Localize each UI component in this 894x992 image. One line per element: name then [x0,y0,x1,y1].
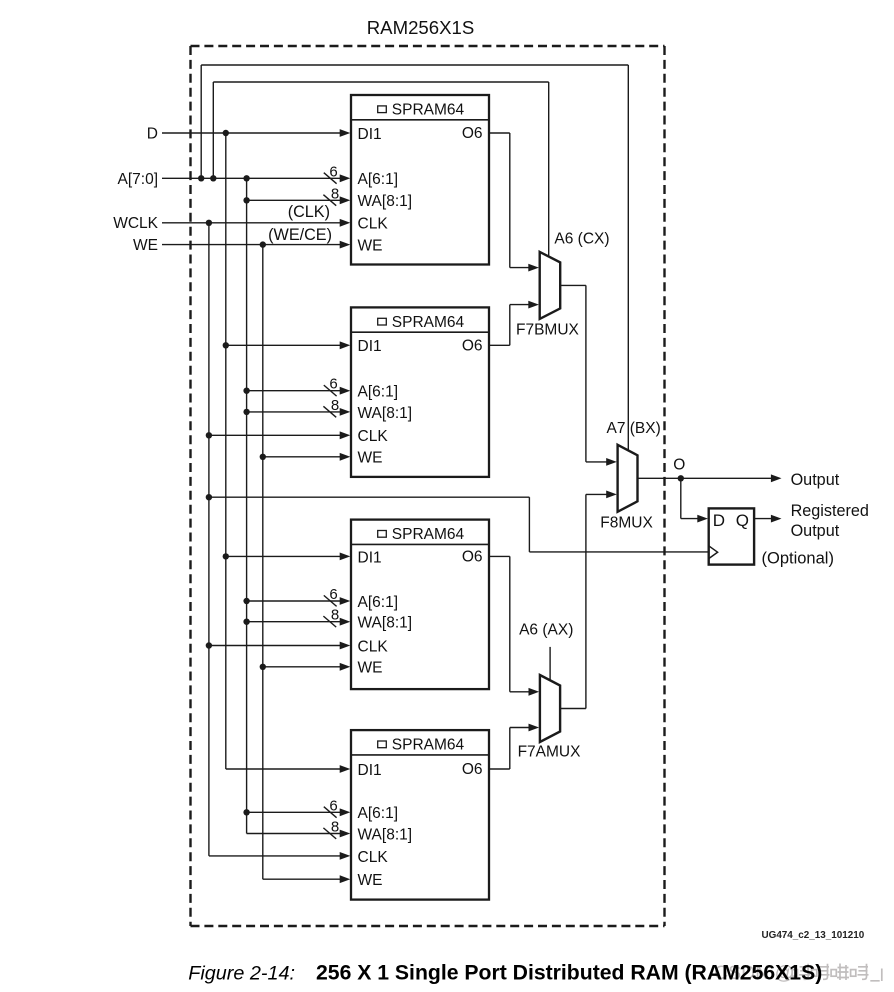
wire WE input horizontal [162,244,341,246]
svg-text:D: D [713,511,725,530]
svg-text:DI1: DI1 [358,549,382,566]
bus width slash 8 on U2 WA[8:1] [323,406,336,417]
junction dot WA branch U3 [243,619,249,625]
svg-text:Q: Q [736,511,749,530]
svg-text:(CLK): (CLK) [288,203,330,221]
svg-text:A[6:1]: A[6:1] [358,594,399,611]
bus width slash 8 on U4 WA[8:1] [323,828,336,839]
arrowhead into U4 WE [340,875,351,883]
wire WCLK branch to U4 CLK [209,855,341,857]
svg-text:O: O [673,457,685,474]
wire Q output horizontal [754,518,771,520]
wire WE branch to U3 WE [263,666,341,668]
arrowhead F8MUX input I1 [606,491,617,499]
svg-text:D: D [147,126,158,143]
svg-text:A7 (BX): A7 (BX) [607,420,661,437]
arrowhead into U3 A[6:1] [340,597,351,605]
bus width slash 6 on U1 A[6:1] [324,173,337,184]
junction dot A6 branch at input [210,175,216,181]
svg-text:SPRAM64: SPRAM64 [392,102,465,119]
wire U4 O6 vertical to F7AMUX [509,728,511,770]
svg-text:F7AMUX: F7AMUX [518,743,582,760]
wire WA branch to U1 WA[8:1] [247,199,341,201]
svg-text:RAM256X1S: RAM256X1S [367,17,475,38]
junction dot D net at input [223,130,229,136]
arrowhead WE into U1 WE [340,241,351,249]
svg-text:Registered: Registered [791,502,869,520]
junction dot WE branch U2 [260,454,266,460]
junction dot D branch U2 [223,342,229,348]
arrowhead Registered Output [771,515,782,523]
svg-text:WE: WE [133,237,158,254]
wire F7AMUX lower input horizontal [510,727,530,729]
svg-text:(WE/CE): (WE/CE) [268,226,332,244]
svg-text:A[6:1]: A[6:1] [358,805,399,822]
arrowhead into U4 A[6:1] [340,808,351,816]
arrowhead into U1 WA[8:1] [340,196,351,204]
wire D branch to U3 DI1 [226,555,341,557]
svg-text:256 X 1 Single Port Distribute: 256 X 1 Single Port Distributed RAM (RAM… [316,962,822,985]
wire U3 O6 vertical to F7AMUX [509,556,511,691]
bus width slash 6 on U3 A[6:1] [324,595,337,606]
junction dot WCLK branch U3 [206,642,212,648]
wire WCLK branch to U2 CLK [209,434,341,436]
arrowhead into U4 WA[8:1] [340,830,351,838]
wire F7AMUX upper input horizontal [510,691,530,693]
arrowhead into U4 DI1 [340,765,351,773]
junction dot D branch U3 [223,553,229,559]
wire A7 select net left vertical [200,65,202,178]
wire WCLK net vertical bus [208,223,210,856]
svg-text:CLK: CLK [358,216,389,233]
mux F7AMUX [540,675,560,742]
arrowhead into U2 CLK [340,431,351,439]
RAM256X1S boundary dashed border [191,46,665,926]
svg-text:SPRAM64: SPRAM64 [392,314,465,331]
arrowhead into U4 CLK [340,852,351,860]
junction dot A net at input [198,175,204,181]
svg-text:O6: O6 [462,338,483,355]
wire U3 O6 stub [489,555,510,557]
SPRAM64 block U2 with pins DI1 O6 A[6:1] WA[8:1] CLK WE [351,307,489,477]
arrowhead into U3 CLK [340,642,351,650]
svg-text:(Optional): (Optional) [762,550,834,568]
wire U2 O6 vertical to F7BMUX [509,305,511,346]
arrowhead D into U1 DI1 [340,129,351,137]
svg-text:CLK: CLK [358,638,389,655]
svg-text:O6: O6 [462,125,483,142]
svg-text:WE: WE [358,238,383,255]
arrowhead into U3 WE [340,663,351,671]
wire O to FDR D input [680,478,682,518]
svg-text:WA[8:1]: WA[8:1] [358,193,413,210]
wire A net vertical bus [246,178,248,833]
junction dot A branch U4 [243,809,249,815]
svg-text:WA[8:1]: WA[8:1] [358,615,413,632]
wire U4 O6 stub [489,768,510,770]
wire A branch to U4 A[6:1] [247,811,341,813]
arrowhead into U2 WA[8:1] [340,408,351,416]
wire WCLK branch to U3 CLK [209,645,341,647]
wire U2 O6 stub [489,344,510,346]
wire A7 select net top horizontal [201,64,628,66]
wire F7BMUX upper input horizontal [510,267,530,269]
arrowhead F8MUX input I0 [606,458,617,466]
svg-text:SPRAM64: SPRAM64 [392,737,465,754]
arrowhead into U3 WA[8:1] [340,618,351,626]
svg-text:SPRAM64: SPRAM64 [392,526,465,543]
arrowhead WCLK into U1 CLK [340,219,351,227]
arrowhead into U2 A[6:1] [340,387,351,395]
svg-text:O6: O6 [462,549,483,566]
svg-text:A6 (CX): A6 (CX) [554,230,609,247]
svg-text:Output: Output [791,522,840,540]
wire WE branch to U2 WE [263,456,341,458]
junction dot WCLK net at input [206,220,212,226]
svg-text:Figure 2-14:: Figure 2-14: [188,963,295,985]
arrowhead A into U1 A[6:1] [340,174,351,182]
mux F7BMUX [540,252,561,319]
wire A6 select net top horizontal [213,81,548,83]
wire A6 select net right vertical to F7BMUX [548,82,550,257]
svg-text:Output: Output [791,471,840,489]
arrowhead into U2 WE [340,453,351,461]
wire WCLK input horizontal [162,222,341,224]
wire A branch to U2 A[6:1] [247,390,341,392]
arrowhead F7BMUX input I1 [528,301,539,309]
SPRAM64 block U4 with pins DI1 O6 A[6:1] WA[8:1] CLK WE [351,730,489,900]
wire A branch to U3 A[6:1] [247,600,341,602]
wire WE branch to U4 WE [263,878,341,880]
wire U1 O6 stub [489,132,510,134]
clock chevron of register [709,546,718,559]
wire A6 (AX) select stub [549,647,551,680]
wire U1 O6 vertical to F7BMUX [509,133,511,268]
wire WCLK branch to register clock [209,496,530,498]
junction dot A net down branch [243,175,249,181]
arrowhead into U3 DI1 [340,553,351,561]
arrowhead F7BMUX input I0 [528,264,539,272]
junction dot WE net at input [260,241,266,247]
svg-text:UG474_c2_13_101210: UG474_c2_13_101210 [762,930,865,941]
flip-flop FDR register box [709,508,754,564]
junction dot WE branch U3 [260,664,266,670]
wire F7BMUX output to F8MUX [560,284,586,286]
svg-text:A6 (AX): A6 (AX) [519,622,573,639]
wire WA branch to U4 WA[8:1] [247,833,341,835]
junction dot A branch U3 [243,598,249,604]
junction dot WCLK register branch [206,494,212,500]
svg-text:WCLK: WCLK [113,215,158,232]
wire D input horizontal [162,132,341,134]
junction dot WCLK branch U2 [206,432,212,438]
SPRAM64 block U1 with pins DI1 O6 A[6:1] WA[8:1] CLK WE [351,95,489,265]
bus width slash 8 on U1 WA[8:1] [323,195,336,206]
svg-text:WE: WE [358,450,383,467]
svg-text:WE: WE [358,872,383,889]
svg-text:A[6:1]: A[6:1] [358,171,399,188]
bus width slash 6 on U2 A[6:1] [324,385,337,396]
svg-text:CLK: CLK [358,849,389,866]
mux F8MUX [618,445,638,512]
wire O output horizontal [638,477,772,479]
svg-text:WA[8:1]: WA[8:1] [358,405,413,422]
svg-text:CLK: CLK [358,428,389,445]
junction dot WA branch U2 [243,409,249,415]
svg-text:DI1: DI1 [358,762,382,779]
svg-text:F8MUX: F8MUX [600,515,653,532]
junction dot WA branch U1 [243,197,249,203]
SPRAM64 block U3 with pins DI1 O6 A[6:1] WA[8:1] CLK WE [351,520,489,690]
arrowhead F7AMUX input I1 [529,724,540,732]
wire WA branch to U2 WA[8:1] [247,411,341,413]
wire F7BMUX lower input horizontal [510,304,530,306]
wire A7 select net right vertical to F8MUX [627,65,629,450]
wire WE net vertical bus [262,245,264,880]
svg-text:6: 6 [329,163,337,180]
bus width slash 6 on U4 A[6:1] [324,807,337,818]
svg-text:WA[8:1]: WA[8:1] [358,826,413,843]
node O junction dot [678,475,684,481]
svg-text:DI1: DI1 [358,338,382,355]
wire A6 select net left vertical [212,82,214,178]
svg-text:A[6:1]: A[6:1] [358,384,399,401]
svg-text:A[7:0]: A[7:0] [118,171,159,188]
arrowhead F7AMUX input I0 [529,688,540,696]
watermark CSDN text [714,962,882,984]
svg-text:DI1: DI1 [358,126,382,143]
junction dot A branch U2 [243,388,249,394]
svg-text:WE: WE [358,660,383,677]
svg-text:O6: O6 [462,761,483,778]
arrowhead FDR D input [697,515,708,523]
wire F7AMUX output to F8MUX [560,708,586,710]
wire D branch to U2 DI1 [226,344,341,346]
wire WA branch to U3 WA[8:1] [247,621,341,623]
wire D net vertical bus [225,133,227,769]
bus width slash 8 on U3 WA[8:1] [323,616,336,627]
arrowhead Output [771,474,782,482]
wire D branch to U4 DI1 [226,768,341,770]
arrowhead into U2 DI1 [340,341,351,349]
svg-text:F7BMUX: F7BMUX [516,321,580,338]
wire A[7:0] input horizontal [162,177,341,179]
